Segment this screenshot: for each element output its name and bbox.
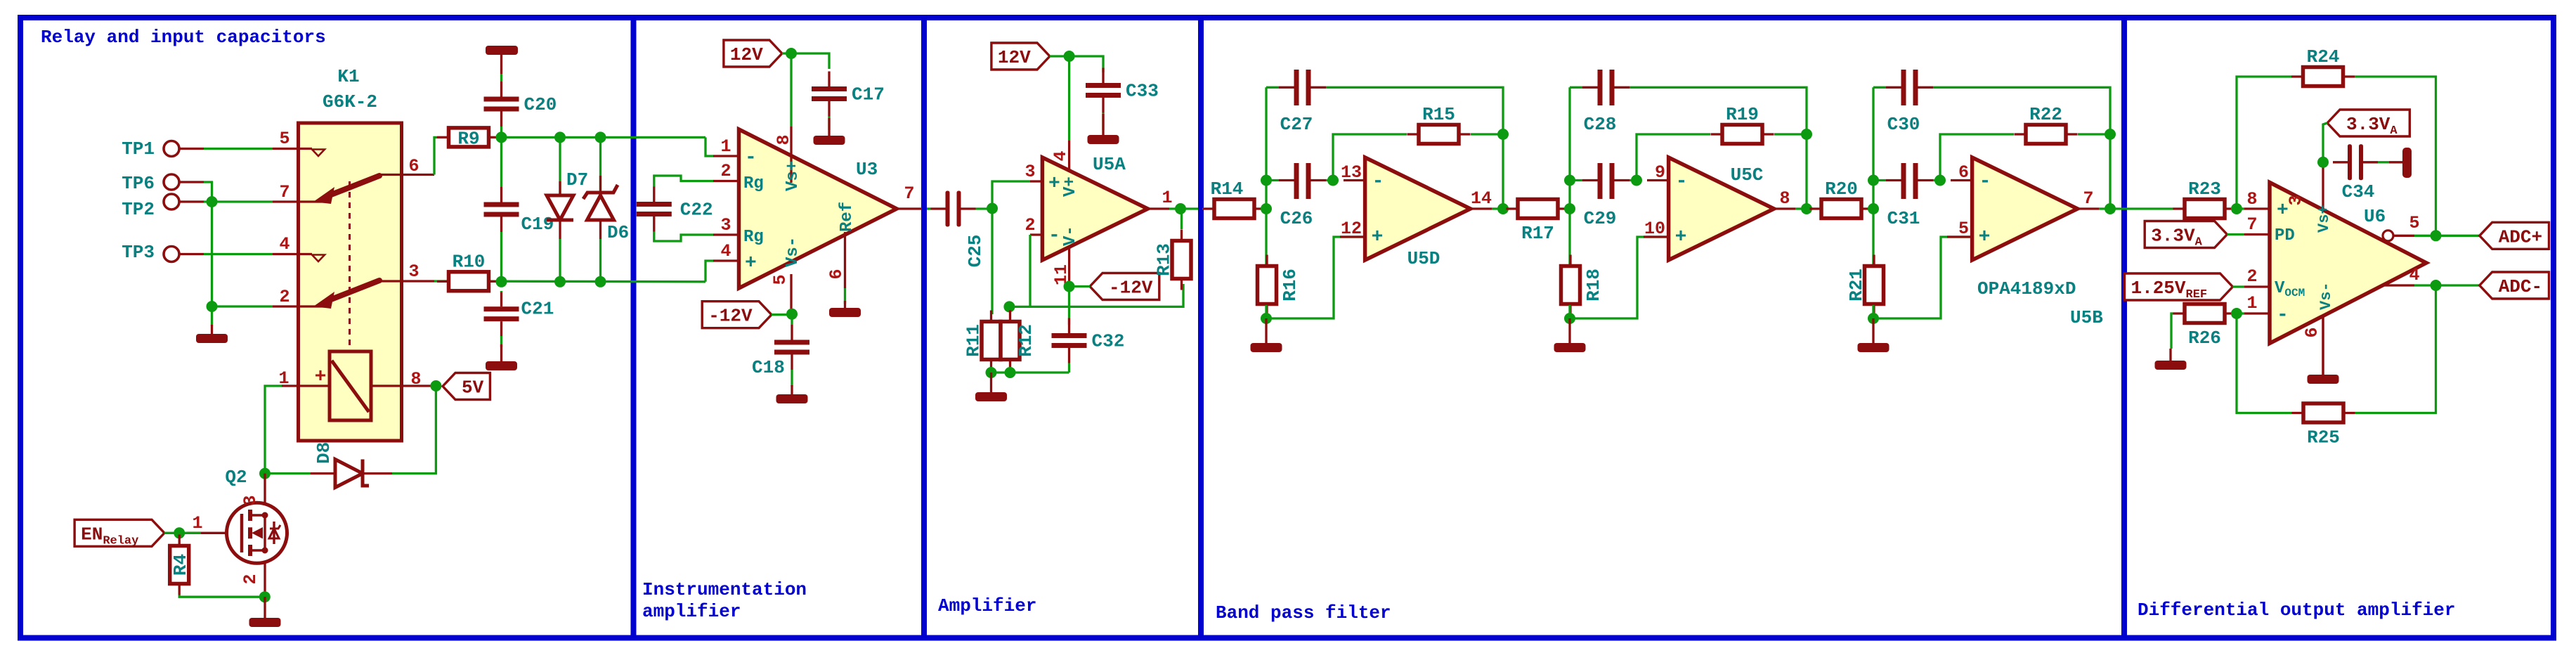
wire R22 right (2078, 133, 2110, 135)
svg-text:7: 7 (2246, 214, 2257, 235)
wire C32 to bottom rail (1068, 363, 1070, 373)
global label 1.25VREF (2125, 273, 2233, 300)
svg-text:Vs+: Vs+ (783, 161, 802, 191)
U3 pin 2 (713, 180, 739, 182)
junction 12V / U5A V+ (1064, 51, 1075, 62)
svg-text:R21: R21 (1846, 268, 1867, 302)
svg-text:Rg: Rg (743, 174, 764, 193)
junction U5A out / R13 (1175, 203, 1186, 214)
svg-text:+: + (745, 252, 757, 274)
capacitor C32 (1052, 333, 1087, 338)
junction node A / D7 (554, 131, 566, 143)
wire 3.3VA down to C34 (2323, 123, 2327, 162)
capacitor C28 (1598, 70, 1603, 105)
wire C20 to node A (500, 127, 502, 137)
power bar (C34) (2389, 161, 2402, 163)
relay K1 pin 1 (282, 384, 330, 387)
svg-text:TP2: TP2 (122, 199, 155, 220)
resistor R15 (1419, 125, 1459, 144)
svg-text:PD: PD (2275, 226, 2295, 245)
svg-text:4: 4 (2409, 265, 2419, 285)
junction R23 / R24 (2231, 203, 2242, 214)
junction R14 / C27 net (1261, 203, 1272, 214)
svg-text:TP3: TP3 (122, 242, 155, 263)
ground bar (C33) (1102, 114, 1104, 135)
svg-text:D7: D7 (566, 169, 588, 190)
wire -V feedback row (1009, 284, 1183, 306)
wire -12V to pin 11 (1069, 285, 1091, 287)
wire R26 to ground (2171, 313, 2173, 349)
wire R25 left (2237, 313, 2292, 413)
resistor R23 (2185, 200, 2225, 219)
op-amp U5D (1365, 157, 1471, 260)
relay K1 coil (330, 351, 371, 420)
junction R22 / output net (2105, 129, 2116, 140)
junction output (1801, 203, 1812, 214)
junction -12V / C32 (1064, 281, 1075, 292)
U5A pin 4 (V+) (1068, 141, 1070, 172)
svg-text:+: + (1372, 226, 1384, 248)
svg-text:V+: V+ (1061, 176, 1080, 197)
capacitor C31 (1901, 163, 1906, 199)
junction pin2 net (207, 301, 218, 312)
relay K1 pin 6 (379, 174, 434, 176)
svg-text:Vs-: Vs- (2317, 282, 2335, 310)
junction R11 bottom (986, 367, 997, 378)
svg-text:3.3VA: 3.3VA (2151, 226, 2202, 250)
capacitor C26 (1294, 163, 1299, 199)
wire U5B out to R23 (2110, 207, 2173, 209)
svg-text:R26: R26 (2188, 328, 2221, 349)
svg-text:C18: C18 (752, 357, 785, 378)
wire left vertical C30 net (1872, 87, 1874, 266)
ground (TP net) (211, 325, 213, 334)
svg-text:3.3VA: 3.3VA (2346, 114, 2398, 138)
wire TP2 to relay pin 7 (204, 200, 273, 202)
svg-text:Vs-: Vs- (783, 237, 802, 267)
resistor R12 (1001, 322, 1020, 360)
svg-text:5: 5 (2409, 213, 2419, 233)
wire R24 left (2237, 77, 2291, 209)
wire to top cap (1873, 86, 1886, 89)
diode D7 (559, 137, 561, 195)
ground (R26) (2169, 349, 2171, 361)
svg-text:amplifier: amplifier (642, 601, 741, 622)
junction R12 bottom (1005, 367, 1016, 378)
U3 pin 5 (Vs-) (790, 274, 792, 315)
U5B pin - (1951, 179, 1972, 181)
svg-text:+: + (1675, 226, 1687, 248)
U6 pin 5 (out+) bubble (2383, 231, 2393, 241)
svg-text:R10: R10 (453, 251, 486, 272)
svg-text:ADC+: ADC+ (2499, 226, 2542, 247)
svg-text:D6: D6 (607, 222, 629, 243)
wire R22 left (1940, 134, 2014, 181)
wire 12V down to U5A pin 4 (1068, 56, 1070, 141)
capacitor C27 (1294, 70, 1299, 105)
wire C25 to node (976, 207, 993, 209)
svg-text:C20: C20 (524, 94, 557, 115)
U3 pin 1 (713, 155, 739, 157)
op-amp U3 (739, 129, 897, 288)
relay K1 actuator dashed line (349, 181, 351, 350)
svg-text:R9: R9 (457, 128, 479, 149)
wire 3.3VA to PD (2227, 233, 2245, 235)
svg-text:2: 2 (720, 161, 731, 181)
junction out+ / R24 (2431, 230, 2442, 241)
U3 pin 7 (out) (897, 207, 922, 209)
capacitor C30 (1901, 70, 1906, 105)
svg-text:Amplifier: Amplifier (938, 595, 1036, 616)
svg-text:C22: C22 (680, 200, 713, 221)
wire C18 to ground (791, 370, 793, 387)
U5A pin 2 (-) (1030, 233, 1042, 235)
global label ADC- (2480, 272, 2549, 299)
global label 12V (U3) (724, 40, 782, 67)
power bar above C20 (486, 46, 518, 55)
junction TP2/TP6 (207, 196, 218, 207)
Q2 pin 2 (source) (264, 563, 266, 597)
svg-text:Vs+: Vs+ (2315, 205, 2333, 233)
svg-text:R25: R25 (2307, 427, 2340, 448)
capacitor C21 (484, 306, 519, 311)
svg-text:R16: R16 (1280, 268, 1301, 302)
wire bottom rail (991, 371, 1069, 373)
svg-text:R13: R13 (1154, 243, 1175, 276)
svg-text:V-: V- (1061, 226, 1080, 246)
svg-text:-12V: -12V (1109, 278, 1153, 299)
junction C29 tap (1564, 175, 1575, 186)
ground bar (C17) (828, 118, 830, 136)
wire node up to U5A pin 3 (992, 181, 1030, 209)
svg-text:-: - (1372, 171, 1384, 193)
Q2 pin 1 (gate) (187, 532, 226, 534)
svg-text:TP1: TP1 (122, 138, 155, 160)
wire bar to C20 (500, 74, 502, 82)
wire C21 to ground (500, 336, 502, 347)
junction Q2 drain (259, 468, 271, 479)
svg-text:R12: R12 (1015, 324, 1036, 357)
wire node to C31 (1873, 179, 1886, 181)
svg-text:U5B: U5B (2070, 307, 2103, 328)
junction R15 / output net (1497, 129, 1509, 140)
relay K1 switch arm 2 (327, 280, 379, 301)
wire non-inverting input to ground net (1570, 237, 1669, 318)
wire Ref to ground (844, 288, 846, 304)
resistor R13 (1172, 241, 1191, 279)
wire down to C18 (791, 315, 793, 325)
global label EN_Relay (74, 519, 164, 546)
svg-text:U5A: U5A (1093, 154, 1126, 175)
wire R25 right (2355, 285, 2436, 413)
resistor R18 (1561, 266, 1580, 304)
junction R16 bottom (1261, 313, 1272, 324)
svg-text:C17: C17 (852, 84, 885, 105)
wire C27 to output net (1326, 87, 1503, 209)
U3 pin 8 (Vs+) (790, 127, 792, 183)
wire node B to U3 pin 4 (705, 261, 713, 282)
junction C25 / R11 / pin3 (987, 203, 998, 214)
svg-text:5: 5 (770, 274, 791, 285)
resistor R16 (1258, 266, 1277, 304)
svg-text:-: - (2277, 304, 2289, 326)
relay K1 pin 4 (273, 253, 299, 255)
wire R19 right (1774, 133, 1807, 135)
U5B output pin (2078, 207, 2099, 209)
svg-text:C29: C29 (1584, 208, 1617, 229)
U6 pin 6 (Vs-) (2322, 316, 2324, 375)
wire to ground (211, 306, 213, 326)
svg-text:Rg: Rg (743, 228, 764, 247)
wire R15 right (1471, 133, 1503, 135)
svg-text:9: 9 (1655, 162, 1665, 183)
wire 12V to C33 (1050, 56, 1103, 72)
junction -12V / C18 (786, 309, 798, 320)
ground (R18) (1568, 318, 1570, 343)
svg-text:6: 6 (826, 268, 847, 279)
op-amp U5B (1972, 157, 2078, 260)
svg-text:R15: R15 (1422, 104, 1455, 125)
section divider 4 (2121, 18, 2127, 638)
wire C34 to bar (2378, 161, 2389, 163)
svg-text:C21: C21 (521, 299, 554, 320)
wire left vertical C28 net (1568, 87, 1570, 266)
svg-text:3: 3 (720, 215, 731, 235)
global label -12V (U5A) (1090, 273, 1159, 300)
ground (U3 Ref) (844, 301, 846, 308)
wire R4 bottom to source (179, 595, 265, 597)
wire out+ to ADC+ (2414, 235, 2480, 237)
svg-text:3: 3 (408, 261, 419, 282)
wire 12V down to U3 pin 8 (790, 53, 792, 127)
svg-text:12: 12 (1341, 219, 1362, 239)
wire node A horizontal (R9 row) (434, 137, 705, 174)
junction R19 / output net (1801, 129, 1812, 140)
U5D pin + (1340, 235, 1365, 238)
U6 pin 1 (2244, 312, 2270, 314)
wire C28 to output net (1629, 87, 1807, 209)
U5C pin + (1644, 235, 1669, 238)
svg-text:Differential output amplifier: Differential output amplifier (2138, 600, 2455, 621)
wire TP6 down to TP2 net (204, 182, 212, 202)
svg-text:R22: R22 (2029, 104, 2062, 125)
relay K1 switch arm 1 (327, 176, 379, 196)
svg-text:Instrumentation: Instrumentation (642, 579, 807, 600)
svg-text:4: 4 (279, 234, 290, 254)
resistor R24 (2303, 67, 2343, 86)
junction 12V / U3 Vs+ (786, 48, 797, 59)
capacitor C29 (1598, 163, 1603, 199)
svg-text:7: 7 (2083, 188, 2093, 209)
resistor R22 (2026, 125, 2066, 144)
ground (C21) (500, 344, 502, 361)
U3 pin 6 (Ref) (844, 232, 846, 288)
wire output (2099, 207, 2110, 209)
svg-text:8: 8 (2246, 189, 2257, 209)
svg-text:1: 1 (720, 136, 731, 157)
svg-text:K1: K1 (337, 66, 359, 87)
junction R20 / C30 net (1868, 203, 1879, 214)
wire R15 left (1333, 134, 1407, 181)
svg-text:2: 2 (2246, 266, 2257, 287)
junction 3.3VA / C34 / Vs+ (2317, 157, 2329, 168)
ground (C18) (791, 385, 793, 394)
junction C26 tap (1261, 175, 1272, 186)
svg-text:-: - (1979, 171, 1991, 193)
svg-text:4: 4 (1050, 150, 1071, 161)
wire node B horizontal (R10 row) (434, 280, 705, 283)
wire TP2 net down to relay pin 2 (212, 202, 273, 306)
wire relay pin1 down to Q2 drain (265, 386, 282, 474)
wire R24 right (2355, 77, 2436, 235)
wire node to C26 (1266, 179, 1279, 181)
svg-text:6: 6 (2302, 327, 2322, 337)
wire 12V to C17 (782, 53, 829, 69)
relay K1 pin 3 (379, 280, 434, 282)
wire to top cap (1266, 86, 1279, 89)
relay K1 pin 2 (273, 305, 325, 307)
junction node A / D6 (595, 131, 606, 143)
wire EN_Relay to gate (164, 532, 201, 534)
svg-text:U3: U3 (856, 159, 878, 180)
wire Rin to node (1266, 207, 1266, 209)
svg-text:C19: C19 (521, 214, 554, 235)
wire input (1201, 207, 1204, 209)
wire C29 to inverting input (1629, 179, 1637, 181)
relay K1 pin 8 (371, 384, 434, 387)
U5C pin - (1647, 179, 1669, 181)
svg-text:12V: 12V (730, 44, 763, 65)
svg-text:U5D: U5D (1407, 248, 1440, 269)
resistor R4 (170, 546, 189, 584)
capacitor C22 (637, 202, 672, 207)
junction inverting input (1631, 175, 1642, 186)
junction Q2 source (259, 591, 271, 602)
resistor R14 (1214, 200, 1254, 219)
svg-text:C33: C33 (1126, 81, 1159, 102)
wire node A down to C19 (500, 137, 502, 187)
svg-text:C27: C27 (1280, 114, 1313, 135)
svg-text:2: 2 (1024, 215, 1035, 235)
junction C31 tap (1868, 175, 1879, 186)
capacitor C17 (812, 86, 847, 91)
U5B pin + (1947, 235, 1972, 238)
svg-text:8: 8 (774, 134, 794, 145)
wire TP1 to relay pin 5 (204, 148, 273, 150)
svg-text:-: - (1048, 225, 1060, 247)
svg-text:8: 8 (410, 369, 421, 389)
svg-text:5: 5 (1958, 219, 1969, 239)
svg-text:D8: D8 (313, 442, 334, 464)
resistor R17 (1518, 200, 1558, 219)
junction R18 bottom (1564, 313, 1575, 324)
resistor R25 (2303, 403, 2343, 422)
wire C33 to bar (1102, 113, 1104, 131)
svg-text:3: 3 (240, 495, 261, 505)
svg-text:TP6: TP6 (122, 173, 155, 194)
wire node A to U3 pin 1 (705, 137, 713, 156)
section divider 2 (921, 18, 927, 638)
junction inverting input (1934, 175, 1946, 186)
svg-text:6: 6 (1958, 162, 1969, 183)
wire C26 to inverting input (1326, 179, 1333, 181)
junction R26 / R25 (2231, 308, 2242, 319)
ground (R21) (1872, 318, 1874, 343)
svg-text:Q2: Q2 (225, 467, 247, 488)
svg-text:C25: C25 (965, 235, 986, 268)
global label 5V (443, 373, 490, 400)
junction node B / D6 (595, 276, 606, 287)
svg-text:8: 8 (1779, 188, 1790, 209)
wire Rin to node (1569, 207, 1570, 209)
wire R26 to U6 pin 1 (2237, 312, 2245, 314)
svg-text:-12V: -12V (708, 306, 753, 327)
capacitor C33 (1086, 83, 1121, 88)
junction node A / C20 (496, 131, 507, 143)
wire -12V to U3 Vs- (772, 313, 792, 316)
U3 pin 3 (713, 233, 739, 235)
svg-text:Band pass filter: Band pass filter (1216, 602, 1391, 623)
wire C17 to bar (828, 117, 830, 131)
wire output (1492, 207, 1503, 209)
svg-text:G6K-2: G6K-2 (323, 91, 377, 112)
wire U5A out to border (1169, 207, 1198, 209)
svg-text:2: 2 (279, 287, 290, 307)
U6 pin 8 (2244, 207, 2270, 209)
svg-text:7: 7 (279, 182, 290, 202)
resistor R26 (2185, 304, 2225, 323)
svg-text:1: 1 (1162, 188, 1172, 208)
svg-text:+: + (315, 366, 327, 388)
svg-text:4: 4 (720, 241, 731, 261)
wire output (1795, 207, 1807, 209)
svg-text:ADC-: ADC- (2499, 276, 2542, 297)
wire C22 bottom to Rg pin 3 (654, 232, 713, 242)
relay K1 pin 7 (273, 200, 325, 202)
global label 3.3VA (PD) (2145, 221, 2227, 248)
resistor R9 (449, 128, 489, 147)
wire down to C32 (1068, 287, 1070, 325)
svg-text:2: 2 (240, 574, 261, 584)
wire non-inverting input to ground net (1873, 237, 1972, 318)
wire to top cap (1570, 86, 1582, 89)
svg-text:R17: R17 (1521, 223, 1554, 244)
U5C output pin (1774, 207, 1795, 209)
wire R23 to U6 pin 8 (2237, 207, 2245, 209)
relay K1 body (299, 123, 402, 441)
svg-text:U6: U6 (2364, 206, 2386, 227)
U6 pin 4 (out-) (2383, 284, 2414, 286)
U5D output pin (1471, 207, 1492, 209)
wire input (1808, 207, 1811, 209)
svg-text:R4: R4 (170, 554, 191, 576)
svg-text:C31: C31 (1887, 208, 1920, 229)
wire R13 top (1180, 209, 1183, 229)
svg-text:R19: R19 (1726, 104, 1759, 125)
wire C31 to inverting input (1933, 179, 1940, 181)
capacitor C25 (946, 191, 950, 227)
svg-text:5V: 5V (462, 377, 484, 399)
wire C30 to output net (1933, 87, 2110, 209)
Q2 pin 3 (drain) (264, 474, 266, 503)
svg-text:C30: C30 (1887, 114, 1920, 135)
junction output (2105, 203, 2116, 214)
svg-text:13: 13 (1341, 162, 1362, 183)
junction out- / R25 (2431, 280, 2442, 291)
wire pin2 down (1029, 235, 1031, 306)
wire node down to R11 (991, 209, 993, 314)
U5D pin - (1344, 179, 1365, 181)
